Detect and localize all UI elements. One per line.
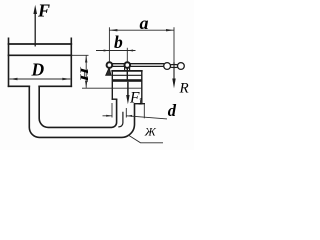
liquid leader line	[128, 135, 163, 143]
dimension H line with arrows	[85, 56, 87, 88]
dimension d line (arrows outside)	[103, 115, 168, 119]
small cylinder left wall	[111, 71, 113, 99]
force R line through handle	[173, 62, 175, 80]
svg-text:R: R	[179, 81, 189, 97]
svg-text:a: a	[140, 13, 149, 33]
pipe inner wall (top)	[39, 86, 116, 127]
big cylinder right wall	[70, 38, 72, 86]
pipe outer wall (left + bottom)	[29, 86, 134, 137]
svg-text:D: D	[31, 59, 45, 79]
small cylinder step to neck (left)	[112, 98, 116, 100]
big cylinder bottom (gap for pipe outlet)	[9, 85, 72, 87]
svg-text:b: b	[114, 32, 123, 52]
pivot bracket diagonal	[106, 68, 111, 76]
dimension b extension right	[126, 48, 128, 62]
big piston bottom line	[9, 54, 72, 56]
lever bar	[109, 64, 164, 67]
dimension d flange extension	[143, 105, 145, 119]
svg-text:Ж: Ж	[144, 125, 157, 139]
dimension D line with arrows	[9, 78, 70, 80]
dimension d extension right	[125, 108, 127, 118]
big piston top line	[9, 43, 72, 45]
small cylinder right wall	[141, 71, 143, 104]
force F arrowhead (up)	[33, 5, 37, 14]
dimension a extension right / R line upper	[173, 27, 175, 62]
force F1 arrow (down)	[127, 82, 129, 97]
pivot circle (fulcrum)	[107, 62, 113, 68]
H extension bottom (liquid level small cylinder)	[82, 87, 142, 89]
dimension a line with arrows	[109, 29, 174, 31]
clevis of rod fork	[125, 68, 130, 71]
rod of small piston	[126, 68, 128, 80]
lever handle waist	[170, 65, 178, 68]
small cylinder cap plate	[112, 70, 142, 72]
pipe socket inner elbow	[119, 112, 123, 127]
svg-text:H: H	[77, 66, 91, 83]
small piston band	[112, 79, 142, 82]
dimension a extension left	[108, 27, 110, 62]
handle left knob	[164, 63, 171, 70]
H extension top (liquid level big cylinder)	[71, 54, 88, 56]
piston rod of force F	[34, 13, 36, 46]
svg-text:1: 1	[138, 98, 143, 108]
handle right knob	[178, 63, 185, 70]
big cylinder left wall	[8, 38, 10, 86]
dimension d extension left	[111, 103, 113, 118]
small cylinder bottom lip (right)	[135, 103, 145, 105]
svg-text:d: d	[168, 101, 177, 120]
dimension b line (arrows outside)	[96, 50, 136, 52]
svg-text:F: F	[37, 1, 50, 21]
pin circle (rod joint)	[125, 62, 131, 68]
force R arrowhead (down)	[172, 79, 175, 89]
